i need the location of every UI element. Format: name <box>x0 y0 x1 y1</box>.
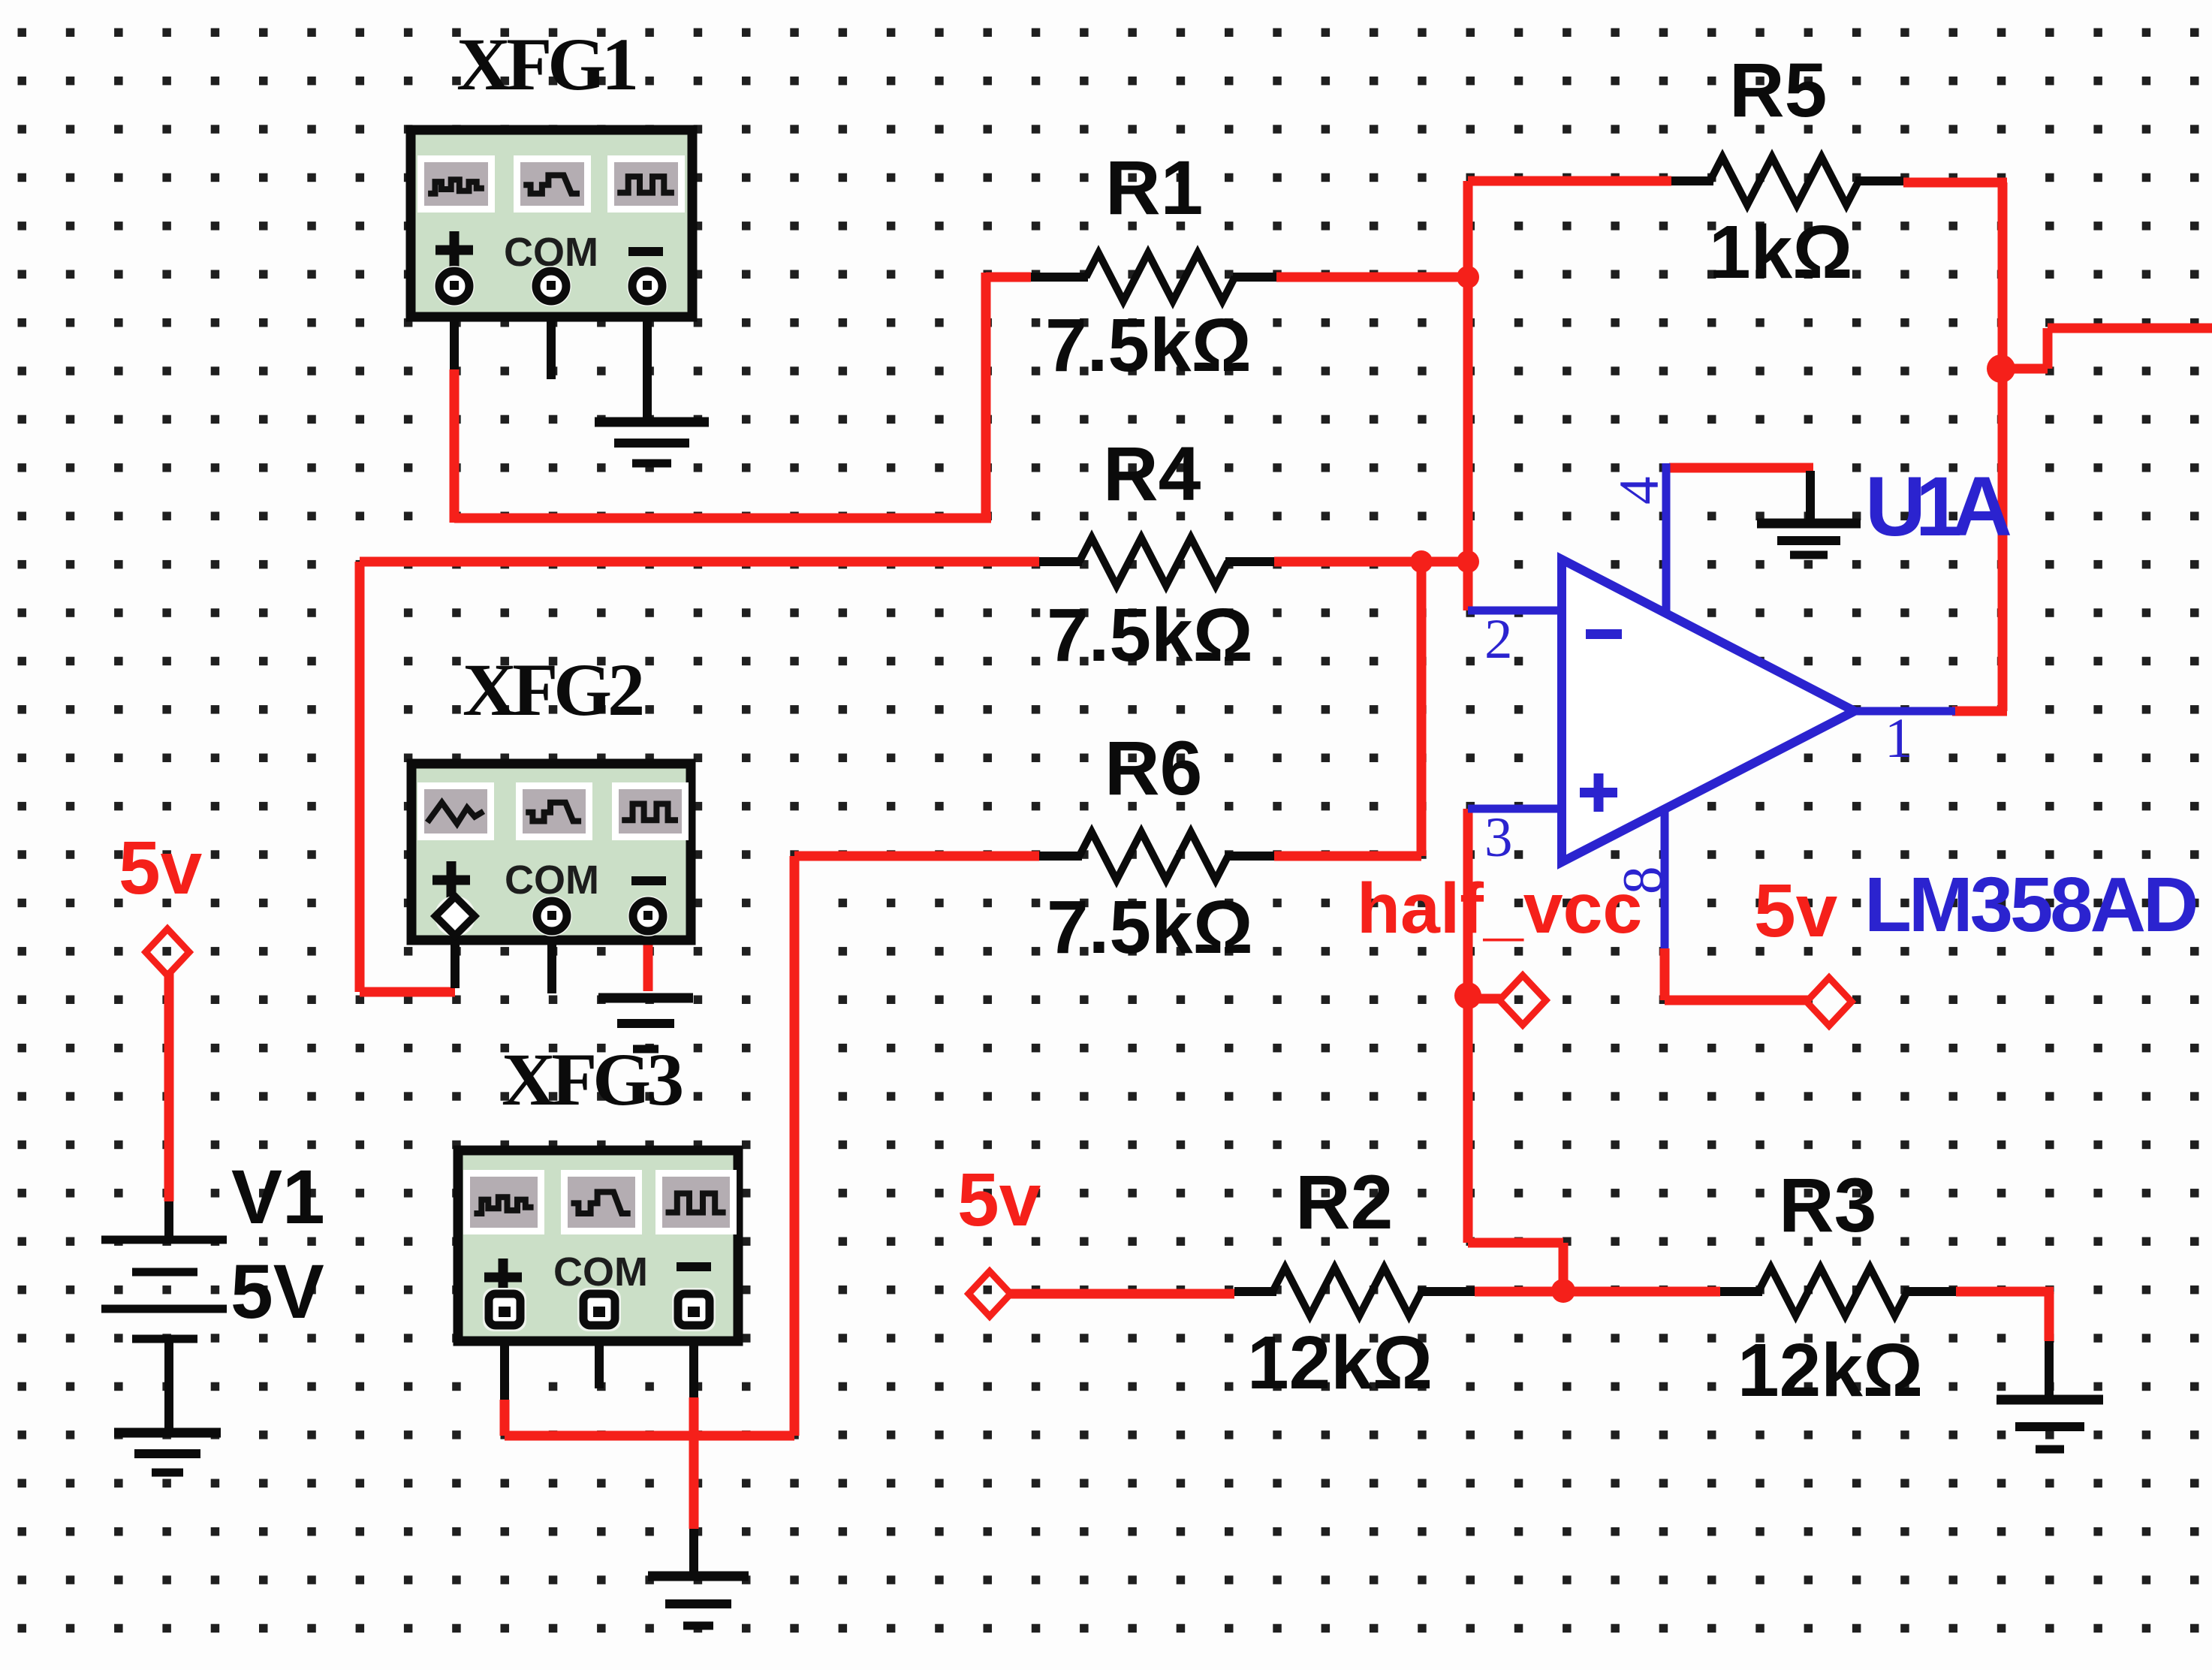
svg-text:R6: R6 <box>1104 725 1202 811</box>
svg-text:5v: 5v <box>957 1158 1041 1242</box>
svg-text:XFG3: XFG3 <box>502 1038 682 1121</box>
svg-text:1: 1 <box>1885 707 1913 770</box>
svg-text:V1: V1 <box>231 1154 325 1240</box>
svg-text:3: 3 <box>1484 806 1513 869</box>
svg-text:2: 2 <box>1484 608 1513 671</box>
svg-text:4: 4 <box>1608 477 1671 505</box>
svg-text:COM: COM <box>505 858 599 903</box>
svg-text:7.5kΩ: 7.5kΩ <box>1045 303 1252 387</box>
svg-text:XFG1: XFG1 <box>457 23 635 106</box>
svg-text:R4: R4 <box>1103 431 1201 517</box>
svg-text:1kΩ: 1kΩ <box>1709 210 1852 294</box>
svg-text:R1: R1 <box>1105 145 1203 231</box>
svg-text:7.5kΩ: 7.5kΩ <box>1047 593 1253 677</box>
svg-text:5v: 5v <box>1754 869 1838 953</box>
svg-text:R5: R5 <box>1729 47 1827 133</box>
svg-text:R2: R2 <box>1295 1159 1393 1245</box>
svg-text:12kΩ: 12kΩ <box>1737 1328 1923 1412</box>
svg-text:LM358AD: LM358AD <box>1864 861 2196 948</box>
svg-text:5V: 5V <box>231 1249 324 1334</box>
svg-text:5v: 5v <box>119 826 203 910</box>
svg-text:R3: R3 <box>1779 1162 1876 1248</box>
svg-text:7.5kΩ: 7.5kΩ <box>1047 885 1253 969</box>
svg-text:8: 8 <box>1612 867 1674 895</box>
svg-text:XFG2: XFG2 <box>463 648 642 731</box>
svg-text:12kΩ: 12kΩ <box>1247 1321 1433 1405</box>
svg-text:U1A: U1A <box>1865 460 2010 553</box>
svg-text:half_vcc: half_vcc <box>1357 869 1642 948</box>
